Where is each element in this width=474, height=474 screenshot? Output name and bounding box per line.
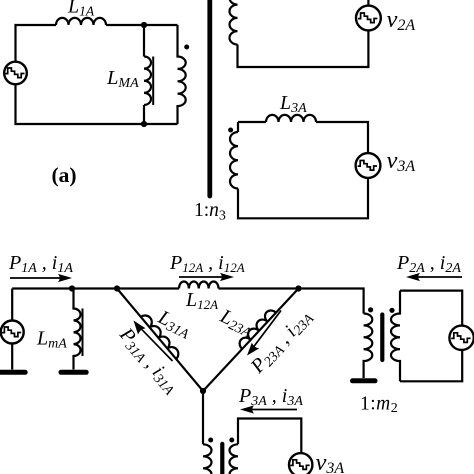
node: delta bottom vertex dot: [200, 388, 206, 394]
inductor L1A: [56, 18, 106, 25]
svg-text:P2A , i2A: P2A , i2A: [396, 252, 461, 276]
node: polarity dot bottom-left winding: [208, 438, 213, 443]
svg-text:1:m2: 1:m2: [360, 394, 398, 417]
svg-text:LMA: LMA: [106, 67, 139, 91]
svg-text:L12A: L12A: [185, 289, 218, 312]
label v3A (bottom): [316, 449, 345, 474]
inductor: bottom transformer left winding: [203, 444, 212, 474]
label LmA: [36, 328, 67, 352]
inductor L31A: [141, 313, 181, 359]
voltage source v3A (bottom): [289, 453, 312, 474]
transformer core bar (bottom): [220, 444, 224, 474]
label 1:n3: [194, 200, 226, 224]
svg-text:v3A: v3A: [387, 147, 416, 175]
svg-text:L1A: L1A: [67, 0, 95, 19]
svg-text:P3A , i3A: P3A , i3A: [238, 385, 303, 409]
ground (m2 transformer): [353, 378, 376, 383]
svg-text:v3A: v3A: [316, 449, 345, 474]
arrow P3A (left): [240, 405, 297, 413]
inductor: 1:m2 transformer right winding: [391, 291, 400, 382]
label L3A: [279, 92, 307, 116]
arrow P2A (left): [406, 273, 462, 281]
arrow P12A (right): [179, 273, 234, 281]
ground (LmA): [61, 370, 86, 375]
svg-text:(a): (a): [52, 163, 77, 187]
wire: right delta diagonal: [203, 289, 299, 392]
arrow P31A (up-left along diagonal): [134, 321, 173, 362]
label v3A (middle right): [387, 147, 416, 175]
node: polarity dot v3A winding: [228, 128, 233, 133]
node: polarity dot m2 right: [389, 308, 394, 313]
svg-text:LmA: LmA: [36, 328, 67, 352]
wire: top circuit left vertical + top + bottom outline: [16, 25, 178, 124]
svg-text:P12A , i12A: P12A , i12A: [169, 252, 245, 275]
label L1A: [67, 0, 95, 19]
node: polarity dot m2 left: [368, 307, 373, 312]
label P31A i31A (rotated): [113, 323, 183, 399]
ground (bottom-left source): [0, 370, 25, 375]
inductor: 1:m2 transformer left winding: [364, 314, 373, 379]
voltage source v3A: [356, 153, 381, 178]
arrow P1A (right): [10, 274, 72, 282]
label LMA: [106, 67, 139, 91]
inductor L3A: [266, 115, 316, 122]
label P12A i12A: [169, 252, 245, 275]
label L12A: [185, 289, 218, 312]
node: polarity dot bottom-right winding: [229, 438, 234, 443]
inductor: primary winding (top transformer): [178, 25, 186, 124]
wire: LMA branch vertical: [143, 25, 145, 124]
inductor LMA: [144, 57, 153, 106]
svg-text:P1A , i1A: P1A , i1A: [8, 252, 73, 276]
node: junction dot at source branch: [69, 285, 75, 291]
node: junction dot left delta corner: [114, 285, 120, 291]
wire: v2A loop: [238, 0, 369, 67]
label L31A: [153, 306, 195, 343]
inductor: v2A secondary winding: [230, 0, 238, 45]
svg-text:L3A: L3A: [279, 92, 307, 116]
label 1:m2: [360, 394, 398, 417]
inductor LmA: [74, 289, 83, 370]
wire: v3A bottom loop: [238, 419, 301, 454]
label v2A: [387, 6, 416, 34]
transformer core bar 1:m2: [380, 315, 384, 361]
svg-text:L23A: L23A: [215, 305, 257, 342]
inductor: bottom transformer right winding: [230, 444, 239, 474]
voltage source v2A: [356, 6, 381, 31]
wire: P2A right loop: [400, 291, 462, 382]
inductor L12A: [179, 282, 219, 289]
transformer core bar 1:n3: [207, 0, 212, 196]
label (a): [52, 163, 77, 187]
inductor: v3A secondary winding: [230, 132, 238, 188]
label P3A i3A: [238, 385, 303, 409]
wire: bottom circuit top rail: [12, 289, 363, 314]
wire: v3A loop: [238, 122, 368, 218]
svg-text:1:n3: 1:n3: [194, 200, 226, 224]
voltage source (bottom-right): [449, 326, 473, 350]
label P23A i23A (rotated): [246, 305, 318, 379]
voltage source vs (top-left): [4, 62, 27, 85]
inductor L23A: [237, 308, 276, 349]
node: junction dot right delta corner: [295, 285, 301, 291]
voltage source (bottom-left): [1, 289, 24, 370]
node: junction dot bottom of LMA branch: [141, 121, 147, 127]
wire: left delta diagonal: [117, 289, 203, 392]
wire: vertex to bottom transformer: [202, 391, 204, 444]
arrow P23A (down-left along diagonal): [247, 311, 281, 356]
label P2A i2A: [396, 252, 461, 276]
label L23A: [215, 305, 257, 342]
node: polarity dot primary: [184, 45, 189, 50]
node: junction dot top of LMA branch: [141, 22, 147, 28]
svg-text:v2A: v2A: [387, 6, 416, 34]
label P1A i1A: [8, 252, 73, 276]
